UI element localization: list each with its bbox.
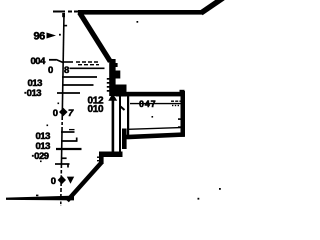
svg-text:8: 8 xyxy=(64,65,69,76)
tick y132 flag xyxy=(69,129,75,131)
centerline xyxy=(61,13,64,197)
svg-text:·029: ·029 xyxy=(32,151,49,162)
tick y164 xyxy=(55,163,70,165)
hub top notch xyxy=(115,63,117,67)
lower diagonal wall xyxy=(67,163,101,201)
top flange thick bar xyxy=(78,10,202,15)
svg-text:0: 0 xyxy=(51,176,56,187)
cap ticks xyxy=(178,118,181,120)
tick y149 bold xyxy=(56,148,82,150)
cylinder top bar xyxy=(125,92,185,97)
tick y132 xyxy=(61,131,75,133)
tick y141 xyxy=(61,140,78,142)
svg-text:0: 0 xyxy=(53,108,58,119)
leader arrowhead up xyxy=(108,93,117,101)
flange left cap xyxy=(99,152,104,165)
bottom bar notch xyxy=(36,195,38,197)
svg-text:0: 0 xyxy=(48,65,53,76)
tick y68 xyxy=(70,67,105,69)
bore wall C xyxy=(127,96,129,136)
flange bar xyxy=(99,152,123,158)
hub thread ticks xyxy=(107,78,110,80)
cylinder right end cap xyxy=(181,91,186,137)
hub upper bar xyxy=(109,59,115,96)
label 96 arrow xyxy=(47,33,57,39)
dashed line y64.5 xyxy=(78,64,99,66)
speck dots xyxy=(137,21,139,23)
tick y141 flag xyxy=(76,138,78,142)
tick y25 xyxy=(65,25,68,27)
bottom label wedge 7 xyxy=(67,177,74,184)
leader connector 004 xyxy=(56,60,63,63)
tick y77 xyxy=(62,76,97,78)
label 004 dash xyxy=(49,59,56,61)
svg-text:004: 004 xyxy=(31,56,47,67)
svg-text:047: 047 xyxy=(139,99,156,109)
label 047 diamond xyxy=(59,108,68,116)
bore wall B xyxy=(119,96,121,152)
stud wall lower xyxy=(112,100,115,152)
upper left diagonal wall xyxy=(80,13,111,62)
cylinder short inner line xyxy=(171,100,181,102)
hub step block xyxy=(116,85,127,97)
cylinder bottom bar xyxy=(125,132,185,139)
flange cap ticks xyxy=(97,157,99,158)
tick y93 xyxy=(57,92,80,94)
top flange thin line xyxy=(53,11,80,13)
step block below cylinder xyxy=(122,129,127,150)
dashed line y62 xyxy=(63,61,73,63)
cylinder inner top line xyxy=(130,103,181,105)
svg-text:·013: ·013 xyxy=(24,88,41,99)
tick y164 flag xyxy=(67,164,69,168)
bottom label diamond xyxy=(58,176,66,184)
tick y85 xyxy=(62,84,94,86)
cylinder serration dots xyxy=(172,105,173,106)
top right diagonal wall xyxy=(201,0,223,13)
small dash y158 xyxy=(62,157,67,159)
hub bump xyxy=(116,71,121,79)
svg-text:7: 7 xyxy=(68,108,74,119)
svg-text:010: 010 xyxy=(88,104,105,115)
bottom flange bar xyxy=(6,196,74,201)
bore wall B hook xyxy=(121,107,125,111)
cap top bump xyxy=(180,90,185,92)
cylinder inner bottom line xyxy=(128,128,181,130)
dot after arrow xyxy=(59,34,61,36)
svg-text:96: 96 xyxy=(34,30,46,42)
